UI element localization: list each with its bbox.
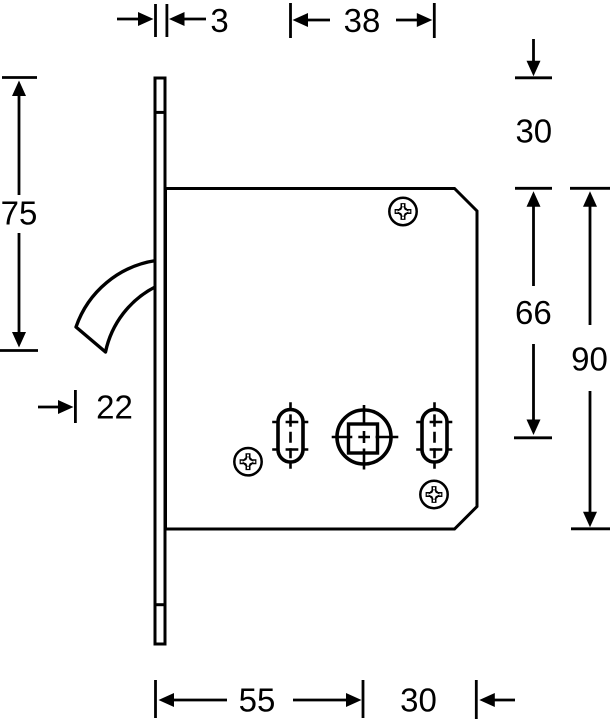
svg-text:90: 90 <box>571 341 608 378</box>
dim 3: extension line right <box>165 4 168 37</box>
dim 55: right extension line <box>362 680 365 718</box>
svg-text:55: 55 <box>239 682 276 719</box>
spindle square hole <box>349 424 378 453</box>
dim 3: right arrow <box>169 12 206 26</box>
dim 90: bottom extension line <box>571 527 610 530</box>
svg-text:38: 38 <box>344 2 381 39</box>
dim 30 bottom: arrow <box>479 693 515 707</box>
oval slot left <box>272 402 308 469</box>
dim 90: top extension line <box>570 187 610 190</box>
hook bolt <box>76 261 156 353</box>
dim 38: left arrow <box>293 13 331 27</box>
screw top-right <box>389 198 416 225</box>
dim 90: top arrow <box>583 191 597 325</box>
dim 66: bottom extension line <box>514 436 552 439</box>
dim 55: right arrow <box>293 693 362 707</box>
dim 55: left extension line <box>154 680 157 718</box>
dim 66: top arrow <box>527 191 541 286</box>
oval slot right <box>416 402 452 469</box>
dim 55: left arrow <box>159 693 228 707</box>
svg-text:30: 30 <box>515 112 552 149</box>
faceplate <box>155 78 165 644</box>
dim 75: top extension line <box>2 76 37 79</box>
dim 75: top arrow <box>12 81 26 196</box>
svg-text:66: 66 <box>515 294 552 331</box>
dim 66: bottom arrow <box>527 344 541 435</box>
dim 66: top extension line <box>515 187 552 190</box>
dim 75: bottom arrow <box>12 233 26 348</box>
dim 75: bottom extension line <box>0 349 38 352</box>
faceplate top cap line <box>155 111 165 114</box>
svg-text:22: 22 <box>96 388 133 425</box>
dim 38: right arrow <box>396 13 432 27</box>
dim 3: left arrow <box>117 12 154 26</box>
svg-text:3: 3 <box>210 2 228 39</box>
dim 30 bottom: extension line <box>475 680 478 719</box>
dim 38: extension line right <box>433 3 436 38</box>
dim 22: arrow <box>38 400 74 414</box>
faceplate bottom cap line <box>155 603 165 606</box>
dim 90: bottom arrow <box>583 391 597 527</box>
screw bottom-right <box>420 481 447 508</box>
screw left <box>234 448 261 475</box>
dim 38: extension line left <box>289 3 292 38</box>
dim 30 top-right: extension line <box>515 76 552 79</box>
lock body <box>166 189 478 530</box>
dim 30 top-right: arrow <box>527 39 541 76</box>
dim 22: extension line <box>74 390 77 423</box>
spindle center lines <box>363 405 366 470</box>
spindle hub circle <box>337 410 391 464</box>
dim 3: extension line left <box>154 4 157 37</box>
svg-text:75: 75 <box>1 195 38 232</box>
svg-text:30: 30 <box>400 682 437 719</box>
